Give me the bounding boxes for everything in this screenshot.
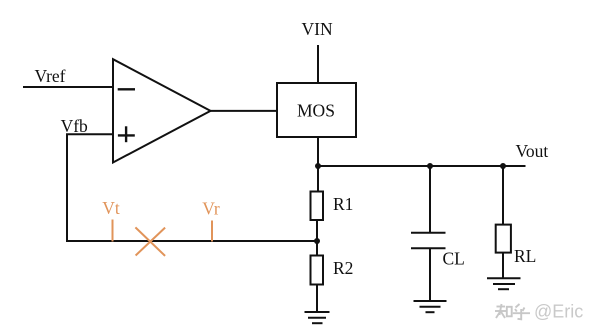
svg-text:Vref: Vref (35, 66, 66, 86)
svg-text:RL: RL (514, 246, 536, 266)
svg-text:R1: R1 (333, 194, 353, 214)
svg-text:@Eric: @Eric (534, 302, 583, 322)
svg-text:Vfb: Vfb (61, 116, 88, 136)
svg-text:Vt: Vt (102, 198, 120, 218)
svg-text:Vr: Vr (202, 199, 220, 219)
svg-text:MOS: MOS (297, 101, 335, 121)
svg-text:Vout: Vout (516, 141, 549, 161)
svg-text:VIN: VIN (302, 19, 333, 39)
svg-text:CL: CL (443, 249, 465, 269)
svg-text:R2: R2 (333, 258, 353, 278)
